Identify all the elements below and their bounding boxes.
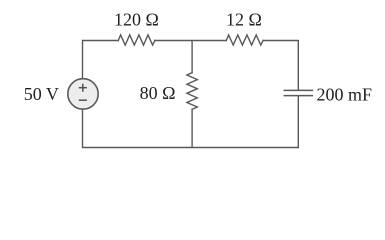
voltage source V1 50V circle [68, 79, 98, 109]
wire top-left: source top to resistor 120ohm [83, 41, 119, 79]
node A junction top of 80ohm branch [191, 41, 193, 73]
svg-text:50 V: 50 V [24, 84, 59, 104]
wire top-mid: resistor 120ohm to resistor 12ohm through node A [155, 40, 226, 42]
resistor R2 12ohm [226, 35, 263, 45]
capacitor C1 bottom plate [284, 95, 312, 97]
wire top-right: resistor 12ohm to capacitor top [263, 41, 298, 90]
resistor R3 80ohm vertical [187, 73, 197, 110]
resistor R1 120ohm [118, 35, 155, 45]
wire bottom rail [83, 109, 299, 147]
svg-text:80 Ω: 80 Ω [140, 83, 176, 103]
voltage source plus sign [79, 84, 87, 101]
wire right-bottom: capacitor bottom to bottom rail [297, 96, 299, 147]
capacitor C1 top plate [284, 89, 312, 91]
svg-text:200 mF: 200 mF [317, 84, 373, 104]
svg-text:120 Ω: 120 Ω [114, 9, 159, 29]
voltage source minus sign [79, 99, 87, 101]
wire 80ohm bottom to bottom rail [191, 109, 193, 147]
svg-text:12 Ω: 12 Ω [226, 9, 262, 29]
